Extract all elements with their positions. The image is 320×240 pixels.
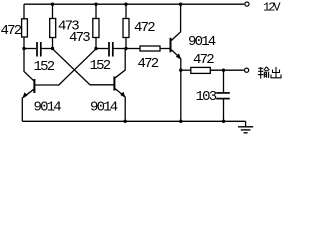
svg-text:472: 472: [1, 23, 22, 39]
svg-text:472: 472: [134, 20, 155, 36]
svg-text:9014: 9014: [34, 99, 62, 115]
svg-text:9014: 9014: [188, 34, 216, 50]
svg-text:472: 472: [138, 56, 159, 72]
svg-text:473: 473: [69, 30, 90, 46]
svg-text:152: 152: [34, 59, 55, 75]
svg-text:9014: 9014: [90, 100, 118, 116]
svg-text:152: 152: [90, 58, 111, 74]
svg-text:472: 472: [193, 52, 214, 68]
svg-text:103: 103: [196, 89, 217, 105]
